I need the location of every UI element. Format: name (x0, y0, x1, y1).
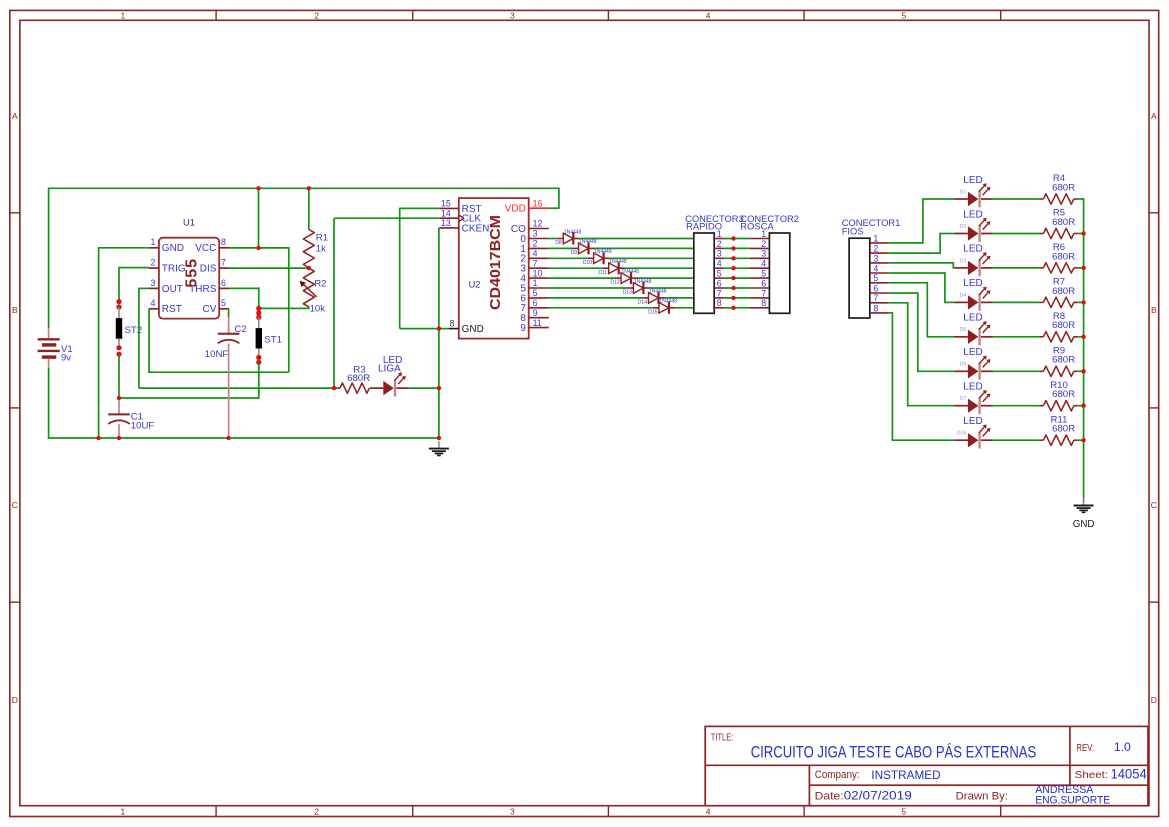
svg-text:Drawn By:: Drawn By: (956, 791, 1008, 803)
svg-text:1N4448: 1N4448 (579, 239, 597, 245)
node rail junction 1 (256, 186, 260, 190)
svg-text:6: 6 (533, 298, 538, 308)
node connector row 1 junction (731, 236, 735, 240)
wire 555 pin7 DIS row (229, 267, 309, 269)
svg-text:LED: LED (963, 209, 982, 220)
wire R10 to right bus (1078, 405, 1085, 407)
svg-text:3: 3 (151, 278, 156, 288)
led LED LIGA (370, 355, 409, 396)
node CLK junction (332, 386, 336, 390)
svg-text:6: 6 (221, 278, 226, 288)
svg-text:GND: GND (462, 324, 484, 335)
led D3 (954, 244, 993, 277)
svg-text:Sheet:: Sheet: (1075, 770, 1109, 781)
trimmer R2 (300, 268, 327, 315)
node bus junction 4 (437, 436, 441, 440)
wire led D3 to R6 (993, 267, 1039, 269)
svg-text:7: 7 (533, 258, 538, 268)
svg-text:4: 4 (706, 807, 711, 817)
svg-text:U1: U1 (183, 217, 195, 227)
wire conector1 pin5 to led row (888, 282, 954, 338)
svg-text:LED: LED (963, 244, 982, 255)
node LED row junction (437, 386, 441, 390)
svg-text:1: 1 (717, 229, 722, 239)
wire U2 output row 0 (549, 238, 693, 240)
svg-text:LIGA: LIGA (378, 364, 401, 375)
svg-text:D3: D3 (960, 258, 967, 264)
diode D13 1N4448 (623, 279, 652, 296)
led D2 (954, 209, 993, 242)
svg-text:C: C (1151, 500, 1157, 510)
svg-text:2: 2 (314, 10, 319, 20)
svg-text:R2: R2 (314, 279, 326, 290)
svg-text:1.0: 1.0 (1114, 742, 1131, 754)
wire R4 to right bus (1078, 198, 1085, 200)
svg-text:1: 1 (151, 237, 156, 247)
wire VDD to rail (549, 207, 560, 209)
svg-text:D4: D4 (960, 293, 967, 299)
svg-text:15: 15 (441, 199, 451, 209)
wire led D7 to R10 (993, 405, 1039, 407)
svg-text:4: 4 (533, 249, 538, 259)
svg-text:680R: 680R (1052, 286, 1075, 297)
wire R8 to right bus (1078, 336, 1085, 338)
svg-text:02/07/2019: 02/07/2019 (844, 789, 912, 803)
ic U2 CD4017BCM (439, 198, 549, 339)
resistor R5 680R (1039, 208, 1077, 239)
svg-text:14054: 14054 (1111, 766, 1147, 781)
svg-text:DIS: DIS (200, 264, 217, 275)
svg-text:1N4448: 1N4448 (622, 269, 640, 275)
wire conector1 pin4 to led row (888, 272, 954, 303)
node right bus row 2 (1081, 231, 1085, 235)
wire R5 to right bus (1078, 233, 1085, 235)
svg-text:8: 8 (717, 298, 722, 308)
wire VCC row pin8 (229, 247, 290, 249)
svg-text:14: 14 (441, 208, 451, 218)
svg-text:3: 3 (873, 253, 878, 263)
svg-text:D: D (12, 695, 18, 705)
diode D10 1N4448 (583, 249, 612, 266)
wire connector row 4 (724, 267, 750, 269)
led D6 (954, 347, 993, 380)
diode D8 1N4448 (555, 229, 581, 246)
svg-text:C: C (12, 500, 18, 510)
node bus junction 3 (226, 436, 230, 440)
svg-text:D11: D11 (598, 270, 607, 276)
svg-text:680R: 680R (1052, 389, 1075, 400)
diode D14 1N4448 (638, 289, 667, 306)
svg-text:680R: 680R (1052, 424, 1075, 435)
node right bus row 6 (1081, 369, 1085, 373)
wire conector1 pin3 to led row (888, 262, 954, 269)
svg-text:2: 2 (717, 239, 722, 249)
svg-text:12: 12 (533, 219, 543, 229)
wire connector row 2 (724, 247, 750, 249)
wire 555 pin2 TRIG to ST2 (119, 267, 150, 302)
wire led D16 to R11 (993, 439, 1039, 441)
resistor R8 680R (1039, 311, 1077, 342)
svg-text:13: 13 (441, 218, 451, 228)
resistor R11 680R (1039, 414, 1077, 445)
svg-text:U2: U2 (469, 280, 481, 290)
svg-text:R1: R1 (316, 233, 328, 244)
svg-text:3: 3 (533, 229, 538, 239)
svg-text:5: 5 (717, 269, 722, 279)
svg-text:LED: LED (963, 347, 982, 358)
resistor R7 680R (1039, 277, 1077, 308)
svg-text:ROSCA: ROSCA (740, 221, 774, 232)
wire U2 output row 6 (549, 297, 693, 299)
svg-text:11: 11 (533, 318, 542, 328)
svg-text:5: 5 (533, 288, 538, 298)
svg-text:ST1: ST1 (264, 334, 282, 345)
wire led D4 to R7 (993, 301, 1039, 303)
capacitor C1 (108, 398, 154, 438)
wire U2 RST pin15 (400, 208, 440, 329)
svg-text:1: 1 (533, 278, 538, 288)
wire connector row 5 (724, 277, 750, 279)
ic U1 555 (149, 217, 229, 318)
node connector row 5 junction (731, 276, 735, 280)
svg-text:680R: 680R (1052, 182, 1075, 193)
svg-text:5: 5 (221, 298, 226, 308)
wire battery minus to ground bus (48, 368, 50, 439)
svg-text:ENG.SUPORTE: ENG.SUPORTE (1035, 794, 1110, 806)
wire U2 GND pin8 (439, 328, 449, 330)
svg-text:680R: 680R (347, 373, 370, 384)
svg-text:1N4448: 1N4448 (594, 249, 612, 255)
wire R7 to right bus (1078, 301, 1085, 303)
node U2 gnd junction (437, 326, 441, 330)
svg-text:1N4448: 1N4448 (609, 259, 627, 265)
node connector row 4 junction (731, 266, 735, 270)
wire connector row 1 (724, 238, 750, 240)
resistor R1 (303, 229, 328, 267)
wire led D1 to R4 (993, 198, 1039, 200)
diode D9 1N4448 (571, 239, 597, 256)
svg-text:CV: CV (202, 304, 216, 315)
node bus junction 2 (117, 436, 121, 440)
svg-text:LED: LED (963, 175, 982, 186)
node right bus row 3 (1081, 266, 1085, 270)
svg-text:CIRCUITO JIGA TESTE CABO PÁS E: CIRCUITO JIGA TESTE CABO PÁS EXTERNAS (751, 743, 1037, 762)
svg-text:2: 2 (533, 239, 538, 249)
wire led D6 to R9 (993, 370, 1039, 372)
capacitor C2 (205, 309, 247, 438)
node rail junction 2 (307, 186, 311, 190)
svg-text:D12: D12 (610, 280, 619, 286)
svg-text:10: 10 (533, 268, 543, 278)
svg-text:6: 6 (873, 283, 878, 293)
wire connector row 6 (724, 287, 750, 289)
resistor R10 680R (1039, 380, 1077, 411)
svg-text:2: 2 (151, 258, 156, 268)
wire conector1 pin7 to led row (888, 302, 954, 407)
svg-text:680R: 680R (1052, 355, 1075, 366)
wire U2 output row 5 (549, 287, 693, 289)
svg-text:D: D (1151, 695, 1157, 705)
svg-text:2: 2 (873, 244, 878, 254)
svg-text:C2: C2 (234, 324, 246, 335)
svg-text:4: 4 (761, 259, 766, 269)
node bus junction 1 (96, 436, 100, 440)
svg-text:5: 5 (873, 273, 878, 283)
wire ground bus (48, 437, 439, 439)
wire 555 pin1 GND to bus (99, 247, 150, 438)
svg-text:D14: D14 (638, 300, 647, 306)
battery V1 (38, 328, 73, 368)
svg-text:D7: D7 (960, 396, 967, 402)
svg-text:2: 2 (314, 807, 319, 817)
svg-text:2: 2 (761, 239, 766, 249)
wire 555 pin3 OUT to R3 row (139, 288, 337, 389)
diode D15 1N4448 (648, 299, 677, 316)
wire net VCC top rail (49, 188, 559, 329)
node DIS junction (307, 266, 311, 270)
svg-text:D1: D1 (960, 189, 967, 195)
svg-text:5: 5 (901, 807, 906, 817)
svg-text:1: 1 (121, 10, 126, 20)
svg-text:FIOS: FIOS (842, 225, 864, 236)
resistor R6 680R (1039, 242, 1077, 273)
svg-text:16: 16 (533, 198, 543, 208)
svg-text:REV:: REV: (1076, 743, 1094, 754)
wire right ground bus (1083, 198, 1085, 503)
wire U2 output row 2 (549, 257, 693, 259)
wire U2 CLK pin14 (334, 218, 439, 388)
node right bus row 8 (1081, 438, 1085, 442)
svg-text:A: A (12, 111, 18, 121)
wire R9 to right bus (1078, 370, 1085, 372)
svg-text:9v: 9v (61, 353, 71, 364)
svg-text:1N4448: 1N4448 (659, 299, 677, 305)
svg-text:D6: D6 (960, 362, 967, 368)
wire U2 output row 4 (549, 277, 693, 279)
wire led D5 to R8 (993, 336, 1039, 338)
wire led D2 to R5 (993, 233, 1039, 235)
led D4 (954, 278, 993, 311)
svg-text:1: 1 (873, 233, 878, 243)
svg-text:7: 7 (761, 288, 766, 298)
svg-text:VCC: VCC (195, 243, 216, 254)
wire U2 output row 7 (549, 307, 693, 309)
ground (left earth symbol) (429, 441, 449, 455)
wire conector1 pin8 to led row (888, 312, 954, 441)
svg-text:1k: 1k (316, 244, 326, 255)
wire R11 to right bus (1078, 439, 1085, 441)
svg-text:CKEN: CKEN (462, 223, 490, 234)
resistor R3 (337, 365, 370, 394)
wire C1 junction to ST1 bottom (118, 397, 259, 399)
wire U2 CKEN pin13 (438, 228, 440, 329)
wire conector1 pin1 to led row (888, 198, 954, 244)
svg-text:680R: 680R (1052, 320, 1075, 331)
svg-text:680R: 680R (1052, 217, 1075, 228)
node right bus row 7 (1081, 404, 1085, 408)
wire connector row 3 (724, 257, 750, 259)
svg-text:D13: D13 (623, 290, 632, 296)
svg-text:D2: D2 (960, 224, 967, 230)
svg-text:VDD: VDD (505, 204, 526, 215)
svg-text:D16: D16 (957, 431, 967, 437)
svg-text:8: 8 (450, 318, 455, 328)
node connector row 3 junction (731, 256, 735, 260)
svg-text:5: 5 (761, 269, 766, 279)
wire connector row 8 (724, 307, 750, 309)
resistor R4 680R (1039, 173, 1077, 204)
node connector row 2 junction (731, 246, 735, 250)
svg-text:LED: LED (963, 382, 982, 393)
node connector row 6 junction (731, 286, 735, 290)
svg-text:Company:: Company: (815, 769, 860, 781)
svg-text:8: 8 (221, 237, 226, 247)
svg-text:10NF: 10NF (205, 349, 229, 360)
svg-text:10UF: 10UF (131, 420, 155, 431)
svg-text:3: 3 (717, 249, 722, 259)
svg-text:D10: D10 (583, 260, 592, 266)
svg-text:INSTRAMED: INSTRAMED (871, 768, 940, 782)
svg-text:4: 4 (873, 263, 878, 273)
svg-text:CD4017BCM: CD4017BCM (488, 215, 504, 310)
svg-text:1N4448: 1N4448 (634, 279, 652, 285)
svg-text:LED: LED (963, 278, 982, 289)
node VCC junction (256, 246, 260, 250)
svg-text:1N4448: 1N4448 (649, 289, 667, 295)
svg-text:10k: 10k (310, 304, 326, 315)
diode D11 1N4448 (598, 259, 627, 276)
svg-text:9: 9 (533, 308, 538, 318)
led D1 (954, 175, 993, 208)
wire U2 output row 3 (549, 267, 693, 269)
svg-text:TRIG: TRIG (162, 264, 186, 275)
svg-text:OUT: OUT (162, 284, 183, 295)
svg-text:7: 7 (873, 293, 878, 303)
wire 555 pin6 THRS to ST1 (229, 287, 259, 308)
svg-text:GND: GND (1073, 519, 1095, 530)
svg-text:7: 7 (717, 288, 722, 298)
svg-text:680R: 680R (1052, 251, 1075, 262)
svg-text:D9: D9 (571, 250, 578, 256)
svg-text:D8: D8 (555, 240, 562, 246)
wire conector1 pin6 to led row (888, 292, 954, 372)
led D16 (954, 416, 993, 449)
svg-text:555: 555 (183, 258, 200, 288)
wire rail drop to VCC row (258, 188, 260, 248)
svg-text:Date:: Date: (815, 791, 844, 803)
svg-text:5: 5 (901, 10, 906, 20)
svg-text:3: 3 (510, 807, 515, 817)
wire gnd column to bus (438, 329, 440, 438)
svg-text:B: B (1151, 305, 1157, 315)
wire LED LIGA cathode to U2 gnd column (409, 387, 439, 389)
wire R2 bottom to ST1 top (259, 307, 310, 309)
title block (705, 726, 1148, 806)
ground GND (right earth symbol) (1073, 498, 1095, 530)
resistor R9 680R (1039, 346, 1077, 377)
node connector row 7 junction (731, 296, 735, 300)
svg-text:1N4448: 1N4448 (564, 229, 582, 235)
node right bus row 4 (1081, 300, 1085, 304)
svg-text:6: 6 (761, 278, 766, 288)
svg-text:GND: GND (162, 243, 184, 254)
svg-text:D15: D15 (648, 309, 657, 315)
connector CONECTOR3 RAPIDO (685, 213, 744, 313)
svg-text:6: 6 (717, 278, 722, 288)
svg-text:LED: LED (963, 313, 982, 324)
svg-text:8: 8 (873, 303, 878, 313)
svg-text:3: 3 (761, 249, 766, 259)
wire connector row 7 (724, 297, 750, 299)
svg-text:1: 1 (761, 229, 766, 239)
node right bus row 5 (1081, 335, 1085, 339)
svg-text:4: 4 (151, 298, 156, 308)
svg-text:9: 9 (520, 323, 526, 334)
wire 555 pin4 RST loop to VCC row (148, 248, 289, 372)
connector CONECTOR2 ROSCA (740, 213, 799, 313)
strap ST1 (256, 306, 282, 365)
wire ST1 bottom down (258, 362, 260, 399)
led D5 (954, 313, 993, 346)
svg-text:7: 7 (221, 258, 226, 268)
node connector row 8 junction (731, 306, 735, 310)
svg-text:LED: LED (963, 416, 982, 427)
svg-text:3: 3 (510, 10, 515, 20)
svg-text:D5: D5 (960, 327, 967, 333)
wire conector1 pin2 to led row (888, 233, 954, 254)
svg-text:1: 1 (121, 807, 126, 817)
svg-text:A: A (1151, 111, 1157, 121)
node C1 junction (117, 396, 121, 400)
led D7 (954, 382, 993, 415)
svg-text:B: B (12, 305, 18, 315)
connector CONECTOR1 FIOS (842, 217, 901, 318)
diode D12 1N4448 (610, 269, 639, 286)
wire U2 output row 1 (549, 247, 693, 249)
wire rail drop to R1 (308, 188, 310, 229)
svg-text:TITLE:: TITLE: (711, 732, 734, 743)
wire ST2 bottom to C1 junction (118, 354, 120, 399)
svg-text:RST: RST (162, 304, 182, 315)
svg-text:4: 4 (717, 259, 722, 269)
svg-text:8: 8 (761, 298, 766, 308)
strap ST2 (116, 299, 142, 357)
wire R6 to right bus (1078, 267, 1085, 269)
svg-text:4: 4 (706, 10, 711, 20)
